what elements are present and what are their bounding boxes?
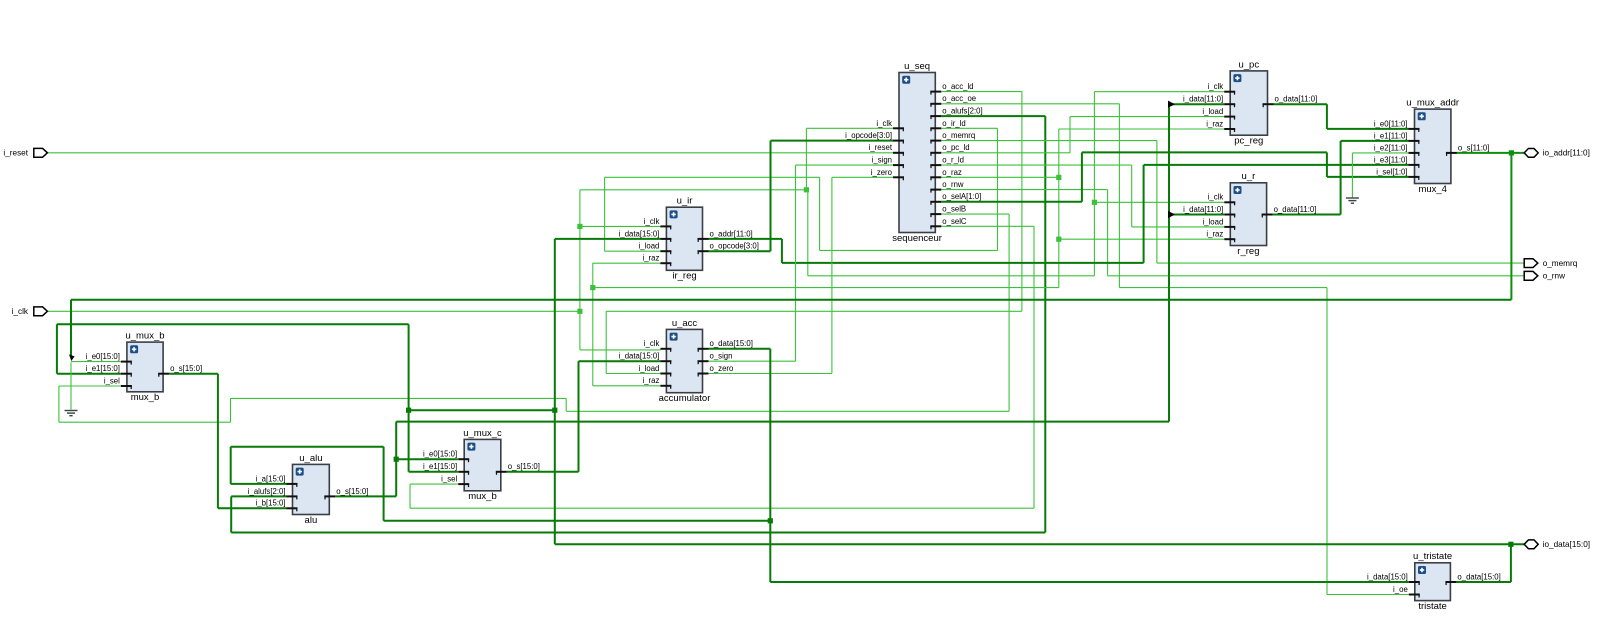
wire o_alufs riser [230, 496, 232, 532]
wire o_selB riser [58, 386, 60, 422]
svg-text:i_data[15:0]: i_data[15:0] [619, 352, 660, 361]
pin u_ir.o_addr[11:0] [698, 238, 709, 240]
svg-text:o_raz: o_raz [942, 168, 962, 177]
pin u_ir.i_data[15:0] [660, 238, 671, 240]
wire mux_b i_e0 stub wire [71, 361, 121, 363]
pin u_pc.o_data[11:0] [1263, 103, 1274, 105]
svg-text:u_alu: u_alu [299, 453, 322, 464]
wire o_raz crossback [593, 287, 1059, 289]
wire o_selB from seq [941, 213, 1009, 215]
wire o_selA crossover [1082, 151, 1327, 153]
wire io_addr drop [1510, 153, 1512, 300]
svg-text:tristate: tristate [1418, 601, 1447, 612]
arrow into r i_data [1168, 211, 1175, 218]
pin u_tristate.i_data[15:0] [1409, 581, 1420, 583]
wire o_pc_ld to pc i_load [1070, 116, 1224, 118]
wire alu result riser [1168, 104, 1170, 421]
junction io_data a [406, 408, 411, 413]
wire mux_4 o_s to io_addr port [1457, 152, 1525, 154]
wire io_data upper-left trunk [57, 323, 409, 325]
wire io_data to mux_b i_e1 [57, 373, 121, 375]
wire o_sign to seq [796, 164, 894, 166]
junction i_clk port [577, 309, 582, 314]
wire o_raz riser/drop [1058, 129, 1060, 288]
svg-text:o_pc_ld: o_pc_ld [942, 143, 969, 152]
pin u_mux_addr.o_s[11:0] [1446, 152, 1457, 154]
svg-text:o_data[11:0]: o_data[11:0] [1274, 205, 1317, 214]
pin u_seq.o_selA[1:0] [930, 201, 941, 203]
wire io_data drop to mux_c [408, 324, 410, 472]
wire o_raz to ir i_raz [593, 262, 661, 264]
svg-text:ir_reg: ir_reg [672, 271, 696, 282]
pin u_acc.i_raz [660, 385, 671, 387]
wire o_r_ld to r i_load [1132, 226, 1225, 228]
wire i_clk to sequenceur [806, 127, 893, 129]
pin u_tristate.o_data[15:0] [1445, 581, 1456, 583]
pin u_seq.o_memrq [930, 140, 941, 142]
svg-text:o_selC: o_selC [942, 217, 967, 226]
svg-text:i_e0[15:0]: i_e0[15:0] [423, 450, 457, 459]
wire o_raz riser to ir/acc [592, 263, 594, 386]
wire io_data link [409, 409, 555, 411]
port o_rnw [1524, 271, 1565, 280]
wire o_opcode to seq [771, 140, 894, 142]
svg-text:i_clk: i_clk [876, 119, 892, 128]
port o_memrq [1524, 259, 1578, 268]
wire i_clk to r_reg [1094, 201, 1224, 203]
svg-text:i_e1[15:0]: i_e1[15:0] [423, 462, 457, 471]
svg-text:i_e1[15:0]: i_e1[15:0] [86, 364, 120, 373]
wire io_data drop to mux_b [56, 324, 58, 374]
block u_r (r_reg) [1183, 171, 1316, 257]
wire o_selC from seq [941, 225, 1034, 227]
svg-text:i_clk: i_clk [1208, 82, 1224, 91]
wire o_selA from seq [941, 201, 1082, 203]
pin u_r.i_clk [1224, 201, 1235, 203]
wire o_addr from ir [709, 238, 782, 240]
block u_mux_c (mux_b) [423, 428, 540, 502]
svg-text:u_mux_c: u_mux_c [463, 428, 502, 439]
pin u_seq.o_acc_ld [930, 91, 941, 93]
pin u_seq.i_opcode[3:0] [893, 140, 904, 142]
wire mux_c o_s to acc i_data [579, 360, 661, 362]
svg-text:o_addr[11:0]: o_addr[11:0] [710, 229, 753, 238]
wire o_rnw to port [1108, 275, 1524, 277]
wire o_acc_ld crossover [606, 310, 1022, 312]
junction i_clk ir branch [577, 224, 582, 229]
wire mux_c o_s [507, 471, 579, 473]
svg-text:io_addr[11:0]: io_addr[11:0] [1543, 149, 1590, 158]
svg-text:i_e0[11:0]: i_e0[11:0] [1374, 119, 1408, 128]
wire acc o_data [709, 348, 771, 350]
wire mux_b o_s to alu i_b [218, 507, 287, 509]
pin u_seq.o_r_ld [930, 164, 941, 166]
svg-text:mux_4: mux_4 [1418, 184, 1447, 195]
wire alu o_s to mux_c i_e0 [396, 458, 458, 460]
wire net i_reset [48, 152, 893, 154]
wire o_selB to mux_b i_sel [59, 385, 121, 387]
pin u_seq.i_clk [893, 127, 904, 129]
svg-text:i_raz: i_raz [1206, 119, 1223, 128]
pin u_ir.o_opcode[3:0] [698, 250, 709, 252]
wire io_data bus vertical [554, 239, 556, 544]
pin u_mux_c.i_e0[15:0] [458, 458, 469, 460]
wire o_zero riser [831, 177, 833, 373]
svg-text:i_reset: i_reset [869, 143, 893, 152]
pin u_seq.o_ir_ld [930, 127, 941, 129]
wire o_addr trunk [782, 262, 1144, 264]
wire o_raz to acc i_raz [593, 385, 661, 387]
pin u_acc.o_sign [698, 360, 709, 362]
svg-text:pc_reg: pc_reg [1234, 136, 1263, 147]
pin u_mux_c.i_sel [458, 483, 469, 485]
svg-text:i_e0[15:0]: i_e0[15:0] [86, 352, 120, 361]
wire i_clk to ir_reg [580, 225, 661, 227]
wire i_clk down branch [807, 190, 809, 276]
pin u_alu.i_a[15:0] [287, 483, 298, 485]
wire o_pc_ld riser [1069, 117, 1071, 153]
wire i_clk riser to pc [1093, 92, 1095, 276]
svg-text:i_clk: i_clk [1208, 193, 1224, 202]
svg-text:o_ir_ld: o_ir_ld [942, 119, 965, 128]
wire pc o_data to mux_4 i_e0 [1327, 128, 1409, 130]
wire io_data to port [555, 543, 1525, 545]
pin u_r.o_data[11:0] [1262, 214, 1273, 216]
svg-text:i_load: i_load [1202, 107, 1223, 116]
wire o_acc_ld riser [1021, 92, 1023, 312]
svg-text:u_r: u_r [1242, 171, 1256, 182]
pin u_acc.o_zero [698, 373, 709, 375]
pin u_acc.i_clk [660, 348, 671, 350]
wire o_selA drop [1326, 152, 1328, 177]
wire acc o_data drop [769, 349, 771, 582]
junction i_clk r branch [1092, 200, 1097, 205]
pin u_seq.o_selB [930, 213, 941, 215]
pin u_mux_b.i_sel [121, 385, 132, 387]
wire pc o_data [1274, 103, 1327, 105]
wire o_r_ld from seq [941, 164, 1131, 166]
pin u_seq.o_rnw [930, 189, 941, 191]
wire r o_data [1273, 214, 1341, 216]
block u_tristate (tristate) [1367, 551, 1501, 612]
block u_mux_addr (mux_4) [1374, 98, 1490, 195]
wire i_clk to sequenceur riser [805, 128, 807, 190]
svg-text:o_s[15:0]: o_s[15:0] [336, 487, 368, 496]
svg-text:u_tristate: u_tristate [1413, 551, 1452, 562]
svg-text:o_memrq: o_memrq [942, 131, 975, 140]
svg-text:i_load: i_load [1202, 217, 1223, 226]
wire o_ir_ld riser [819, 177, 821, 250]
wire o_memrq to port [1157, 262, 1524, 264]
pin u_seq.o_raz [930, 176, 941, 178]
wire o_acc_ld from seq [941, 91, 1022, 93]
wire i_clk trunk from port [48, 310, 580, 312]
arrow into pc i_data [1168, 101, 1175, 108]
pin u_seq.i_reset [893, 152, 904, 154]
svg-text:o_s[15:0]: o_s[15:0] [508, 462, 540, 471]
wire io_addr long trunk [71, 299, 1511, 301]
pin u_seq.i_sign [893, 164, 904, 166]
wire o_alufs drop [1044, 116, 1046, 532]
svg-text:o_acc_oe: o_acc_oe [942, 94, 976, 103]
wire o_selB crossback upper [231, 397, 567, 399]
wire o_acc_ld to acc i_load [606, 373, 660, 375]
wire o_opcode riser [770, 141, 772, 252]
svg-text:u_pc: u_pc [1238, 59, 1259, 70]
wire pc o_data jog [1326, 104, 1328, 129]
pin u_alu.i_alufs[2:0] [287, 495, 298, 497]
junction o_raz ir/acc branch [590, 285, 595, 290]
pin u_pc.i_clk [1224, 91, 1235, 93]
svg-text:o_r_ld: o_r_ld [942, 156, 964, 165]
pin u_acc.i_load [660, 373, 671, 375]
pin u_pc.i_load [1224, 116, 1235, 118]
svg-text:o_data[11:0]: o_data[11:0] [1275, 95, 1318, 104]
wire io_data to mux_c i_e1 [409, 471, 458, 473]
pin u_mux_c.o_s[15:0] [496, 471, 507, 473]
svg-text:u_acc: u_acc [672, 318, 698, 329]
wire o_rnw from seq [941, 189, 1107, 191]
svg-text:mux_b: mux_b [468, 491, 497, 502]
wire o_acc_oe from seq [941, 103, 1119, 105]
wire alu result trunk [396, 421, 1169, 423]
svg-text:i_e3[11:0]: i_e3[11:0] [1374, 155, 1408, 164]
svg-text:o_zero: o_zero [710, 364, 735, 373]
svg-text:i_data[15:0]: i_data[15:0] [619, 229, 660, 238]
svg-text:accumulator: accumulator [659, 393, 711, 404]
wire o_selB crossback [566, 410, 1009, 412]
svg-text:i_raz: i_raz [1206, 230, 1223, 239]
block u_pc (pc_reg) [1183, 59, 1317, 146]
wire mux_b o_s drop [217, 374, 219, 509]
wire r o_data to mux_4 i_e1 [1341, 140, 1409, 142]
wire o_raz to r i_raz [1059, 238, 1225, 240]
wire io_data to ir i_data [555, 238, 661, 240]
pin u_mux_b.i_e0[15:0] [121, 361, 132, 363]
junction io_data port [1508, 542, 1513, 547]
svg-text:i_e2[11:0]: i_e2[11:0] [1374, 143, 1408, 152]
svg-text:i_data[15:0]: i_data[15:0] [1367, 572, 1408, 581]
wire acc o_data over alu [231, 446, 384, 448]
svg-text:i_alufs[2:0]: i_alufs[2:0] [248, 487, 286, 496]
svg-text:i_clk: i_clk [12, 307, 29, 316]
ground at mux_4 [1346, 198, 1359, 203]
svg-text:i_reset: i_reset [3, 149, 28, 158]
wire o_selC drop [1033, 226, 1035, 508]
wire o_selA riser [1081, 152, 1083, 201]
svg-text:o_memrq: o_memrq [1543, 259, 1578, 268]
pin u_mux_addr.i_e3[11:0] [1409, 164, 1420, 166]
wire o_selB drop [1008, 214, 1010, 411]
wire o_opcode from ir [709, 250, 771, 252]
pin u_seq.i_zero [893, 176, 904, 178]
wire acc o_data to alu i_a [231, 483, 287, 485]
svg-text:u_mux_addr: u_mux_addr [1406, 98, 1459, 109]
wire o_acc_oe to tristate i_oe [1327, 594, 1409, 596]
svg-text:alu: alu [305, 515, 318, 526]
pin u_mux_addr.i_e0[11:0] [1409, 128, 1420, 130]
wire o_addr jog [781, 239, 783, 263]
wire mux_b o_s [169, 373, 218, 375]
wire alu o_s riser [395, 422, 397, 497]
svg-text:mux_b: mux_b [131, 392, 160, 403]
svg-text:i_a[15:0]: i_a[15:0] [256, 474, 286, 483]
svg-text:o_rnw: o_rnw [1543, 272, 1565, 281]
svg-text:r_reg: r_reg [1237, 246, 1259, 257]
svg-text:u_ir: u_ir [677, 196, 693, 207]
svg-text:i_clk: i_clk [644, 339, 660, 348]
block u_seq (sequenceur) [845, 61, 982, 244]
wire o_acc_oe drop to tristate [1326, 288, 1328, 595]
wire o_ir_ld crossback [820, 249, 998, 251]
wire i_clk to pc_reg [1094, 91, 1224, 93]
wire i_clk lower trunk [808, 275, 1095, 277]
svg-text:u_seq: u_seq [904, 61, 930, 72]
wire o_selC riser [409, 484, 411, 508]
wire o_selB jog [565, 398, 567, 411]
pin u_mux_c.i_e1[15:0] [458, 471, 469, 473]
wire gnd to mux_4 i_e2 [1352, 152, 1408, 154]
junction alu o_s [394, 457, 399, 462]
wire o_pc_ld from seq [941, 152, 1070, 154]
svg-text:io_data[15:0]: io_data[15:0] [1543, 540, 1590, 549]
wire o_ir_ld drop [997, 128, 999, 250]
pin u_r.i_raz [1224, 238, 1235, 240]
port io_data [1524, 540, 1590, 549]
svg-text:i_clk: i_clk [644, 217, 660, 226]
block u_alu (alu) [248, 453, 369, 526]
svg-text:o_alufs[2:0]: o_alufs[2:0] [942, 107, 982, 116]
wire io_data to tristate o_data drop [1510, 544, 1512, 582]
wire o_selC crossback [410, 507, 1034, 509]
wire o_addr riser [1143, 165, 1145, 263]
wire i_clk to accumulator [580, 349, 661, 351]
svg-text:i_sel: i_sel [441, 475, 457, 484]
pin u_acc.i_data[15:0] [660, 360, 671, 362]
wire tristate o_data [1456, 581, 1511, 583]
pin u_mux_b.i_e1[15:0] [121, 373, 132, 375]
wire o_zero from acc [709, 373, 832, 375]
block u_acc (accumulator) [619, 318, 753, 404]
svg-text:sequenceur: sequenceur [892, 233, 942, 244]
wire acc o_data to tristate i_data [770, 581, 1409, 583]
wire alu result to pc i_data [1169, 103, 1224, 105]
wire r o_data riser [1340, 141, 1342, 215]
junction io_addr [1509, 150, 1514, 155]
wire o_sign from acc [709, 360, 796, 362]
junction acc o_data [768, 518, 773, 523]
pin u_ir.i_load [660, 250, 671, 252]
svg-text:i_raz: i_raz [642, 376, 659, 385]
svg-text:i_data[11:0]: i_data[11:0] [1183, 95, 1223, 104]
wire o_selA to mux_4 i_sel [1327, 176, 1409, 178]
pin u_mux_addr.i_e2[11:0] [1409, 152, 1420, 154]
svg-text:i_sel[1:0]: i_sel[1:0] [1376, 167, 1407, 176]
wire acc o_data crossback [384, 520, 771, 522]
wire o_acc_oe crossover [1119, 287, 1327, 289]
junction o_raz r branch [1056, 237, 1061, 242]
wire o_selC to mux_c i_sel [410, 483, 458, 485]
svg-text:i_load: i_load [639, 242, 660, 251]
wire o_ir_ld from seq [941, 127, 997, 129]
wire o_raz to pc i_raz [1059, 128, 1224, 130]
pin u_seq.o_selC [930, 225, 941, 227]
wire o_alufs bottom trunk [231, 532, 1045, 534]
svg-text:o_s[11:0]: o_s[11:0] [1458, 143, 1490, 152]
svg-text:o_sign: o_sign [710, 352, 733, 361]
wire mux_c o_s riser [578, 361, 580, 472]
pin u_alu.i_b[15:0] [287, 507, 298, 509]
svg-text:i_opcode[3:0]: i_opcode[3:0] [845, 131, 892, 140]
port i_reset [3, 148, 47, 157]
wire o_ir_ld drop to ir [604, 177, 606, 251]
pin u_seq.o_pc_ld [930, 152, 941, 154]
junction o_raz [1056, 175, 1061, 180]
wire acc o_data drop to i_a [230, 447, 232, 484]
wire o_acc_oe drop [1118, 104, 1120, 288]
wire i_clk riser x580 [579, 190, 581, 350]
wire o_selB crossback lower [59, 421, 231, 423]
pin u_r.i_load [1224, 226, 1235, 228]
block u_mux_b (mux_b) [86, 331, 203, 404]
wire o_zero to seq [832, 176, 893, 178]
wire gnd riser mux_b [70, 363, 72, 410]
svg-text:i_data[11:0]: i_data[11:0] [1183, 205, 1223, 214]
svg-text:i_oe: i_oe [1393, 585, 1408, 594]
svg-text:o_s[15:0]: o_s[15:0] [170, 364, 202, 373]
ground at mux_b [65, 411, 78, 416]
junction i_clk seq branch [804, 187, 809, 192]
wire o_addr to mux_4 i_e3 [1144, 164, 1409, 166]
wire o_memrq from seq [941, 140, 1157, 142]
wire o_acc_ld drop [605, 311, 607, 373]
pin u_pc.i_data[11:0] [1224, 103, 1235, 105]
pin u_mux_addr.i_e1[11:0] [1409, 140, 1420, 142]
pin u_alu.o_s[15:0] [324, 495, 335, 497]
junction io_data b [552, 408, 557, 413]
wire o_alufs to alu i_alufs [231, 495, 286, 497]
port i_clk [12, 307, 48, 316]
wire o_alufs from seq [941, 115, 1045, 117]
svg-text:i_sel: i_sel [104, 376, 120, 385]
pin u_ir.i_clk [660, 225, 671, 227]
wire alu result to r i_data [1169, 214, 1224, 216]
svg-text:o_opcode[3:0]: o_opcode[3:0] [710, 242, 759, 251]
pin u_r.i_data[11:0] [1224, 214, 1235, 216]
pin u_mux_addr.i_sel[1:0] [1409, 176, 1420, 178]
wire o_rnw drop [1107, 190, 1109, 276]
wire o_selB jog2 [230, 398, 232, 422]
wire io_addr drop to mux_b [70, 300, 72, 358]
svg-text:i_e1[11:0]: i_e1[11:0] [1374, 131, 1408, 140]
svg-text:o_selB: o_selB [942, 205, 966, 214]
arrow at mux_b i_e0 [69, 354, 75, 361]
svg-text:o_rnw: o_rnw [942, 180, 964, 189]
pin u_mux_b.o_s[15:0] [158, 373, 169, 375]
svg-text:i_raz: i_raz [642, 254, 659, 263]
svg-text:o_acc_ld: o_acc_ld [942, 82, 973, 91]
svg-text:i_load: i_load [639, 364, 660, 373]
svg-text:u_mux_b: u_mux_b [125, 331, 164, 342]
wire o_ir_ld to ir i_load [605, 250, 661, 252]
svg-text:i_b[15:0]: i_b[15:0] [256, 499, 286, 508]
pin u_pc.i_raz [1224, 128, 1235, 130]
wire o_sign riser [795, 165, 797, 361]
svg-text:i_sign: i_sign [872, 156, 892, 165]
pin u_seq.o_acc_oe [930, 103, 941, 105]
wire o_r_ld drop [1131, 165, 1133, 227]
wire o_ir_ld upper crossback [605, 176, 820, 178]
